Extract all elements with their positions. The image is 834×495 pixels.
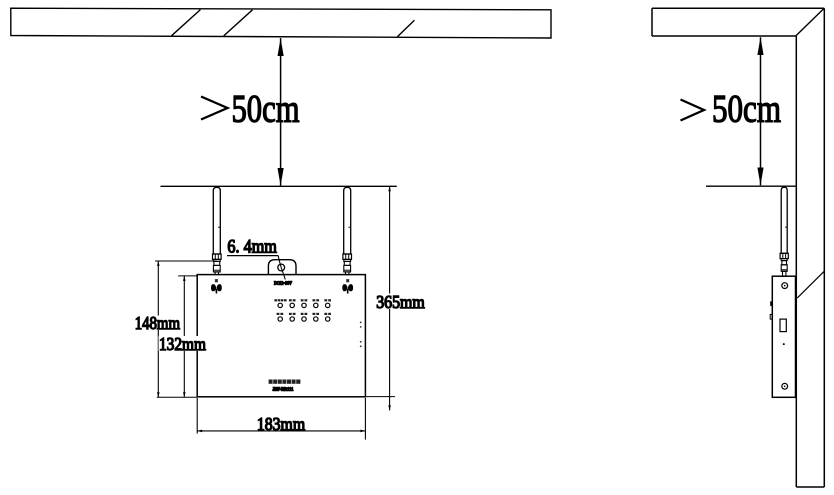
ceiling hatch line 2 (224, 10, 253, 36)
wall bottom (796, 486, 824, 488)
left tabs on box (side view) (770, 301, 772, 306)
svg-text:JBF-RR111: JBF-RR111 (273, 387, 294, 392)
svg-text:DC12~30V: DC12~30V (274, 281, 293, 286)
dimension 365mm (376, 186, 427, 410)
top screw (782, 283, 788, 289)
svg-text:6. 4mm: 6. 4mm (227, 238, 277, 258)
ceiling hatch line 3 (short) (398, 20, 415, 36)
panel: LED row 2 (278, 317, 330, 321)
mounting tab with hanging hole (268, 260, 296, 275)
dimension arrow >50cm (left view) (280, 38, 282, 186)
panel: right edge tiny marks (360, 322, 362, 348)
dimension arrow >50cm (right view) (760, 37, 762, 185)
ceiling slab (left view) (11, 8, 551, 38)
right antenna (front view) (343, 187, 352, 274)
wall outer face (823, 8, 825, 487)
device box (left view) (197, 275, 365, 397)
svg-text:148mm: 148mm (135, 313, 180, 333)
wall break diagonal (797, 271, 824, 298)
dimension 148mm (134, 261, 217, 397)
dimension 183mm (197, 398, 365, 440)
corner bevel (796, 8, 825, 36)
svg-text:50cm: 50cm (232, 87, 300, 131)
panel: product name 无线信号中继器 (tiny blobs) (269, 380, 301, 384)
mounting plane line (left view) (161, 185, 397, 187)
bottom screw (782, 383, 788, 389)
ceiling bottom line (652, 35, 796, 37)
box bottom extension line (left) (157, 396, 198, 398)
antenna (side view) (780, 187, 788, 276)
reference line at antenna top (right view) (706, 185, 796, 187)
svg-text:365mm: 365mm (376, 292, 425, 312)
text >50cm (left) (201, 87, 300, 131)
text >50cm (right) (681, 87, 782, 131)
leader line from 6.4mm to hole (278, 256, 285, 280)
ceiling (side view) top line (652, 7, 824, 9)
side slot (780, 319, 786, 332)
panel: LED row 2 labels (277, 313, 331, 315)
panel: antenna symbol B (bowtie) (342, 279, 353, 293)
panel: LED row 1 (278, 303, 330, 307)
svg-text:132mm: 132mm (159, 334, 206, 354)
panel: LED row 1 labels (274, 299, 331, 301)
svg-text:50cm: 50cm (712, 87, 781, 131)
svg-text:183mm: 183mm (257, 414, 305, 434)
panel: antenna symbol A (bowtie) (211, 279, 222, 293)
dimension 132mm (159, 276, 208, 397)
tiny dot (783, 343, 785, 345)
ceiling left cap (651, 8, 653, 36)
wall inner face (795, 36, 797, 487)
left antenna (front view) (213, 187, 222, 274)
ceiling hatch line 1 (172, 10, 201, 36)
device box (side view) (772, 276, 795, 397)
label 6.4mm (227, 238, 278, 258)
box bottom extension line (right) (365, 396, 395, 398)
